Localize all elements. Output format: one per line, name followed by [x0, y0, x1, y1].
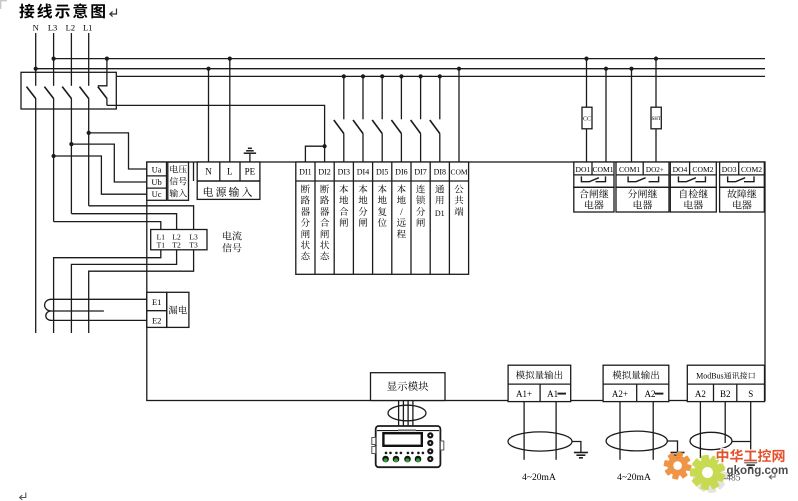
coil middle stub: [51, 310, 104, 312]
return mark bottom left: [20, 493, 26, 500]
switch input DI5: [372, 74, 384, 162]
relay output group DO4/COM2 自检继电器: [670, 162, 716, 212]
svg-text:4~20mA: 4~20mA: [617, 469, 651, 483]
switch input DI4: [353, 74, 365, 162]
analog output block 1 A1+/A1-: [508, 365, 571, 401]
wire COM to N bus: [457, 67, 461, 162]
bus DI supply: [116, 75, 765, 77]
wire L to terminal: [228, 57, 232, 163]
svg-text:A1+: A1+: [516, 387, 532, 400]
leakage CT coil arcs: [45, 299, 51, 320]
bus N (neutral): [36, 68, 765, 70]
wire coil to E1: [51, 298, 147, 300]
terminal block E1 E2 漏电: [147, 292, 189, 327]
svg-text:DI7: DI7: [414, 167, 426, 178]
relay output group DO1/COM1 合闸继电器: [574, 162, 614, 212]
label 4~20mA (1): [522, 469, 556, 483]
svg-text:显示模块: 显示模块: [387, 379, 429, 394]
wire aux to DI1: [305, 146, 324, 162]
terminal block N L PE: [197, 162, 260, 181]
svg-text:N: N: [205, 164, 212, 177]
relay output group DO3/COM2 故障继电器: [720, 162, 765, 212]
svg-text:DI1: DI1: [299, 167, 311, 178]
label column DI5: [377, 182, 387, 230]
svg-text:电器: 电器: [633, 197, 653, 212]
svg-text:电器: 电器: [683, 197, 703, 212]
svg-text:漏电: 漏电: [168, 303, 188, 317]
label column COM: [454, 182, 464, 218]
net label N: [33, 22, 39, 34]
label column DI7: [416, 182, 426, 230]
svg-text:A2: A2: [645, 387, 656, 400]
svg-text:PE: PE: [245, 164, 256, 177]
wire aux to DI2: [323, 144, 327, 162]
svg-text:L2: L2: [66, 22, 75, 34]
breaker pole L2 blade: [62, 87, 71, 99]
svg-text:S: S: [748, 387, 753, 400]
page corner mark: [0, 0, 7, 9]
device outline: [147, 162, 765, 401]
wire CT T3 return: [89, 250, 194, 333]
stub divider line: [193, 162, 195, 181]
analog output block 2 A2+/A2-: [603, 365, 669, 401]
breaker pole N blade: [27, 87, 36, 99]
svg-text:中华工控网: 中华工控网: [716, 446, 786, 466]
wire modbus A2: [699, 402, 701, 458]
display unit front panel: [372, 426, 444, 467]
svg-text:闸: 闸: [416, 215, 426, 229]
svg-text:端: 端: [454, 204, 464, 218]
ground symbol A1 shield: [572, 442, 588, 458]
svg-text:用: 用: [435, 193, 445, 207]
watermark green gear: [690, 454, 726, 490]
node junction bus1/aux: [105, 57, 109, 61]
svg-text:输入: 输入: [169, 187, 187, 200]
display module box 显示模块: [371, 373, 446, 401]
paragraph return mark after title: [110, 9, 117, 17]
svg-text:模拟量输出: 模拟量输出: [612, 368, 660, 382]
svg-text:程: 程: [397, 226, 407, 240]
breaker pole L3 blade: [44, 87, 53, 99]
svg-text:COM1: COM1: [592, 164, 613, 175]
svg-text:A2+: A2+: [612, 387, 628, 400]
svg-text:E1: E1: [152, 296, 161, 308]
wire modbus S: [750, 402, 752, 462]
wire L1 vertical: [88, 33, 90, 206]
cable loop A1: [508, 432, 572, 451]
svg-text:DO3: DO3: [722, 164, 737, 175]
wire tap L1 to Ua: [87, 131, 147, 169]
svg-text:位: 位: [377, 215, 387, 229]
wire L1 to CT L3 terminal: [89, 206, 194, 230]
wire from breaker aux to DI1/DI2: [107, 105, 325, 146]
wire coil to E2: [51, 319, 147, 321]
cable loop modbus: [690, 432, 732, 449]
ground symbol PE: [244, 148, 256, 162]
svg-text:态: 态: [301, 249, 311, 263]
svg-text:DO2+: DO2+: [646, 165, 664, 175]
switch input DI8: [430, 74, 442, 162]
svg-text:DI3: DI3: [338, 167, 350, 178]
net label L1: [83, 22, 92, 34]
wire COM1b to N bus: [629, 67, 633, 162]
svg-text:COM2: COM2: [692, 164, 713, 175]
wire L2 vertical: [70, 33, 72, 214]
label column DI6: [397, 182, 407, 241]
modbus block A2 B2 S: [687, 365, 764, 401]
svg-text:电器: 电器: [584, 197, 604, 212]
svg-text:闸: 闸: [339, 215, 349, 229]
wire COM1a to N bus: [604, 67, 608, 162]
svg-text:信号: 信号: [222, 240, 242, 255]
watermark gear shadow: [692, 458, 727, 493]
watermark text 中华工控网: [716, 446, 786, 466]
svg-text:T3: T3: [189, 240, 198, 251]
wire N vertical: [35, 33, 37, 333]
breaker pole aux (5th) with hook: [98, 59, 107, 106]
svg-text:Ub: Ub: [151, 176, 161, 188]
svg-text:DI2: DI2: [318, 167, 330, 178]
title 接线示意图: [19, 0, 108, 22]
svg-text:DI6: DI6: [395, 167, 407, 178]
wire A1-: [555, 402, 557, 460]
svg-text:gkong.com: gkong.com: [727, 464, 789, 477]
svg-text:ModBus通讯接口: ModBus通讯接口: [696, 370, 756, 381]
watermark orange gear: [663, 451, 691, 479]
ground symbol A2 shield: [667, 441, 684, 458]
svg-text:态: 态: [320, 249, 330, 263]
display cable wires: [399, 401, 413, 428]
svg-text:L3: L3: [48, 22, 57, 34]
wire A2-: [652, 402, 654, 460]
label 电流信号: [222, 228, 242, 255]
label column DI4: [358, 182, 368, 230]
label column DI3: [339, 182, 349, 230]
watermark text gkong.com: [727, 464, 789, 477]
current signal terminal box L1 L2 L3 / T1 T2 T3: [151, 230, 207, 251]
label 电压信号输入 box: [168, 162, 189, 200]
return mark near watermark: [769, 473, 775, 480]
svg-text:闸: 闸: [358, 215, 368, 229]
svg-text:电源输入: 电源输入: [203, 184, 255, 200]
wire L2 to CT L2 terminal: [71, 214, 176, 230]
label 电源输入: [197, 181, 260, 200]
svg-text:A2: A2: [695, 387, 706, 400]
svg-text:DI4: DI4: [357, 167, 369, 178]
relay coil SHT: [651, 57, 661, 163]
net label L3: [48, 22, 57, 34]
svg-text:模拟量输出: 模拟量输出: [516, 368, 564, 382]
circuit breaker QF box: [21, 72, 116, 109]
wire loop to S: [732, 441, 751, 443]
svg-text:T2: T2: [172, 240, 181, 251]
svg-text:DI8: DI8: [434, 167, 446, 178]
label column DI2: [320, 182, 330, 263]
net label L2: [66, 22, 75, 34]
wire L3 to CT L1 terminal: [54, 222, 161, 230]
svg-text:T1: T1: [157, 240, 166, 251]
bus L (phase): [54, 58, 765, 60]
svg-text:D1: D1: [435, 208, 445, 219]
svg-text:DO4: DO4: [673, 164, 688, 175]
node junction bus2/N: [34, 67, 38, 71]
wire CT T1 return: [54, 250, 161, 333]
label 4~20mA (2): [617, 469, 651, 483]
wire N to terminal: [206, 67, 210, 162]
svg-text:CC: CC: [583, 114, 591, 123]
display cable loop ellipse: [388, 405, 426, 421]
svg-text:DO1: DO1: [576, 164, 591, 175]
svg-text:L: L: [227, 164, 233, 177]
svg-text:B2: B2: [720, 387, 731, 400]
wire A2+: [619, 402, 621, 460]
switch input DI3: [334, 74, 346, 162]
wire tap L2 to Ub: [69, 142, 147, 182]
label RS-485: [711, 470, 740, 484]
label column DI8: [435, 182, 445, 220]
terminal block Ua Ub Uc: [147, 162, 167, 200]
svg-text:Ua: Ua: [152, 163, 162, 175]
svg-text:A1: A1: [547, 387, 558, 400]
wire CT T2 return: [71, 250, 176, 333]
wire modbus B2: [724, 402, 726, 443]
svg-text:SHT: SHT: [651, 115, 660, 122]
svg-text:L1: L1: [83, 22, 92, 34]
svg-text:N: N: [33, 22, 39, 34]
svg-text:E2: E2: [152, 314, 161, 326]
relay coil CC: [582, 57, 592, 163]
svg-text:DI5: DI5: [376, 167, 388, 178]
wire L3 vertical: [53, 33, 55, 222]
label column DI1: [301, 182, 311, 263]
earth symbol S: [744, 463, 757, 468]
terminal block DI1-DI8 COM: [296, 162, 469, 274]
svg-text:COM1: COM1: [619, 164, 640, 175]
breaker pole L1 blade: [80, 87, 89, 99]
wire A1+: [523, 402, 525, 460]
wire tap L3 to Uc: [52, 154, 147, 194]
svg-text:COM: COM: [450, 167, 467, 178]
svg-text:COM2: COM2: [741, 164, 762, 175]
cable loop A2: [606, 431, 667, 451]
svg-text:接线示意图: 接线示意图: [19, 0, 108, 22]
svg-text:电器: 电器: [732, 197, 752, 212]
relay output group COM1/DO2+ 分闸继电器: [616, 162, 669, 212]
switch input DI7: [411, 74, 423, 162]
node junction bus1/L3: [52, 57, 56, 61]
svg-text:4~20mA: 4~20mA: [522, 469, 556, 483]
switch input DI6: [391, 74, 403, 162]
svg-text:Uc: Uc: [152, 188, 162, 200]
